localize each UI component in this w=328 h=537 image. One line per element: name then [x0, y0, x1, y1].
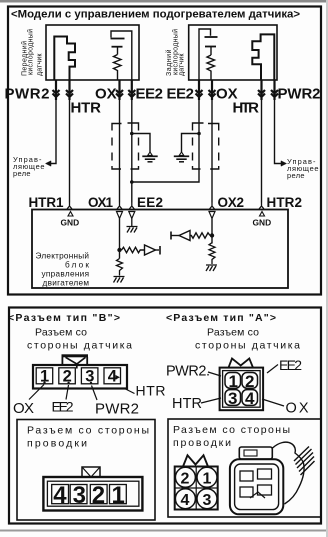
wire PWR2 front to control relay: [46, 100, 57, 166]
arrow OX rear: [209, 80, 216, 100]
arrow EE2 front: [128, 80, 135, 100]
junction EE2 front/rear: [130, 180, 134, 184]
buffer amp A1 (points right): [145, 245, 161, 255]
label OX (type B): [13, 400, 34, 417]
pin 4 (type A sensor side): [245, 389, 255, 408]
svg-text:PWR2: PWR2: [95, 401, 139, 418]
ECU input pin OX2 (open triangle): [209, 212, 215, 219]
wire EE2 rear joining front EE2: [132, 100, 199, 182]
buffer amp A2 (points left): [171, 231, 190, 241]
wire HTR front down to ECU: [69, 100, 71, 203]
arrow PWR2 rear: [271, 80, 278, 100]
leader PWR2 to pin3: [92, 386, 98, 401]
GND marker right (triangle): [253, 212, 272, 228]
svg-text:GND: GND: [253, 218, 272, 228]
zirconia sensing element (rear): lower plate: [205, 47, 216, 56]
resistor inside front sensor (OX leg): [114, 55, 122, 81]
shield (dashed) around OX front wire: [112, 124, 122, 170]
leader EE2 to pin2: [66, 385, 69, 400]
svg-text:стороны датчика: стороны датчика: [27, 340, 132, 352]
arrow HTR rear: [258, 80, 265, 100]
arrow HTR front: [66, 80, 73, 100]
pin 4 (type B sensor side): [108, 368, 118, 386]
pin 4 (type A wiring side): [181, 492, 190, 509]
resistor inside rear sensor (OX leg): [207, 55, 215, 80]
svg-text:датчик: датчик: [36, 53, 43, 76]
caption: wiring side (type B): [27, 425, 149, 450]
pin 3 (type A sensor side): [228, 389, 237, 408]
svg-text:управления: управления: [42, 270, 90, 279]
ECU box: [32, 210, 288, 289]
pin 1 (type A wiring side): [203, 471, 212, 488]
label HTR (rear): [233, 100, 260, 117]
junction OX2: [210, 233, 214, 237]
type B sensor-side connector body: [33, 365, 127, 389]
caption: wiring side (type A): [173, 424, 290, 449]
label PWR2 (rear): [278, 86, 321, 103]
zirconia sensing element (front): lower plate: [112, 47, 123, 55]
svg-text:OX: OX: [13, 400, 34, 417]
svg-text:EE2: EE2: [137, 195, 163, 210]
pin 1 (type B wiring side): [112, 482, 125, 509]
label HTR (type A) + leader: [172, 396, 221, 412]
svg-text:3: 3: [85, 368, 94, 386]
arrow OX front: [116, 80, 123, 100]
wire OX front down to ECU: [119, 100, 121, 203]
svg-text:EE2: EE2: [52, 399, 74, 415]
zirconia sensing element (rear): top plate tied to EE2: [199, 29, 218, 80]
label HTR (type B): [136, 383, 166, 399]
svg-text:2: 2: [181, 471, 190, 488]
svg-text:двигателем: двигателем: [43, 279, 90, 288]
label PWR2 (type A) + leader: [166, 364, 221, 380]
label HTR (front): [71, 100, 102, 117]
pin 4 (type B wiring side): [53, 482, 67, 509]
svg-text:GND: GND: [61, 218, 80, 228]
shield (dashed) around EE2 rear wire: [193, 123, 204, 169]
rear oxygen sensor box U2: [189, 25, 277, 80]
wire HTR rear down to ECU: [261, 100, 263, 203]
leader OX to pin1: [29, 385, 44, 400]
svg-text:HTR2: HTR2: [267, 195, 303, 210]
label: control relay (left): [13, 155, 45, 178]
svg-text:2: 2: [63, 368, 72, 386]
label HTR2: [267, 195, 303, 210]
resistor R2 (vertical, OX1 pulldown): [117, 259, 123, 276]
label EE2 (type B): [52, 399, 74, 415]
label PWR2 (front): [5, 86, 50, 103]
svg-text:HTR: HTR: [233, 100, 260, 117]
svg-text:PWR2: PWR2: [278, 86, 321, 103]
svg-text:EE2: EE2: [279, 357, 302, 373]
vertical label: rear oxygen sensor: [165, 29, 186, 76]
ECU input pin EE2 (open triangle): [129, 212, 135, 219]
pin foot HTR2: [259, 203, 264, 210]
pin 3 (type B wiring side): [73, 482, 86, 509]
svg-text:Электронный: Электронный: [36, 252, 90, 261]
wire EE2 front down to ECU: [131, 100, 133, 203]
svg-text:1: 1: [203, 471, 212, 488]
label OX (rear): [216, 86, 238, 103]
title: Models with sensor heater control: [11, 9, 300, 21]
svg-text:3: 3: [73, 482, 86, 509]
svg-text:3: 3: [228, 389, 237, 408]
zirconia sensing element (front): top plate tied to EE2: [111, 31, 132, 80]
label: control relay (right): [287, 157, 319, 180]
pin 1 (type A sensor side): [229, 372, 238, 391]
svg-text:<Разъем тип "B">: <Разъем тип "B">: [8, 312, 120, 324]
wire OX rear down to ECU: [211, 100, 213, 203]
ground symbol (rear shield): [174, 152, 189, 162]
wiring-side panel (type B): [17, 420, 155, 521]
junction EE2/shield ground: [130, 132, 134, 136]
label EE2 (rear): [167, 86, 195, 103]
type B sensor-side connector latch: [62, 354, 89, 368]
ground (hatched) below R4: [206, 265, 217, 271]
front oxygen sensor box U1: [46, 25, 139, 80]
svg-text:HTR: HTR: [136, 383, 166, 399]
svg-text:4: 4: [53, 482, 67, 509]
svg-text:EE2: EE2: [136, 86, 164, 103]
svg-text:OX1: OX1: [88, 195, 113, 210]
label OX (type A) + leader: [262, 399, 309, 417]
svg-text:Разъем со стороны: Разъем со стороны: [27, 425, 149, 437]
pin foot HTR1: [67, 203, 72, 210]
type A sensor-side connector body: [220, 368, 264, 411]
shield (dashed) around EE2 front wire: [128, 123, 139, 169]
svg-text:HTR1: HTR1: [29, 195, 64, 210]
wiring-side panel (type A): [168, 419, 321, 517]
pin 2 (type A sensor side): [245, 372, 254, 391]
svg-text:стороны датчика: стороны датчика: [195, 340, 300, 352]
pin 2 (type B wiring side): [92, 482, 105, 509]
pin 3 (type B sensor side): [85, 368, 94, 386]
type A wiring-side connector body: [175, 467, 218, 510]
resistor R1 (horizontal, OX1): [122, 247, 145, 252]
title: connector type B: [8, 312, 120, 324]
label EE2 (ECU): [137, 195, 163, 210]
svg-text:датчик: датчик: [179, 53, 186, 76]
photo illustration: harness connector (type A): [230, 447, 283, 514]
svg-text:Разъем со: Разъем со: [35, 327, 87, 339]
svg-text:EE2: EE2: [167, 86, 195, 103]
OX2 wire inside ECU: [211, 219, 213, 244]
type A wiring-side latch (M shape): [183, 455, 208, 466]
ECU input pin OX1 (open triangle): [117, 212, 123, 219]
junction OX1: [117, 248, 121, 252]
heater element (rear) between HTR and PWR2: [252, 34, 274, 80]
label EE2 (front): [136, 86, 164, 103]
vertical label: front oxygen sensor: [21, 29, 44, 76]
label HTR1: [29, 195, 64, 210]
label OX1: [88, 195, 113, 210]
resistor R3 (horizontal, OX2): [190, 233, 210, 238]
pin 2 (type B sensor side): [63, 368, 72, 386]
GND marker left (triangle): [61, 212, 80, 228]
type B wiring-side latch: [82, 467, 100, 477]
outer frame of connector pinout panel: [9, 308, 321, 524]
svg-text:PWR2: PWR2: [5, 86, 50, 103]
arrow PWR2 front: [53, 80, 60, 100]
svg-text:4: 4: [245, 389, 255, 408]
harness boot outline: [273, 442, 304, 504]
title: connector type A: [166, 312, 276, 324]
pin 1 (type B sensor side): [40, 368, 49, 386]
svg-text:реле: реле: [13, 169, 31, 178]
label: engine control unit: [36, 252, 90, 288]
arrow EE2 rear: [196, 80, 203, 100]
pin marks type B sensor side: [43, 375, 120, 384]
svg-text:PWR2.: PWR2.: [166, 364, 210, 380]
ground symbol (front shield): [142, 152, 157, 162]
EE2 internal ground (hatched): [127, 219, 138, 233]
pin foot OX2: [210, 203, 215, 210]
label PWR2 (type B): [95, 401, 139, 418]
svg-text:1: 1: [112, 482, 125, 509]
svg-text:<Разъем тип "А">: <Разъем тип "А">: [166, 312, 276, 324]
label OX2: [218, 195, 245, 210]
caption: sensor side (type A): [195, 327, 300, 352]
wire to shield ground (front): [132, 134, 150, 153]
svg-text:реле: реле: [287, 171, 305, 180]
svg-text:<Модели с управлением подогрев: <Модели с управлением подогревателем дат…: [11, 9, 300, 21]
OX1 wire inside ECU: [119, 219, 121, 259]
pin 2 (type A wiring side): [181, 471, 190, 488]
label EE2 (type A) + leader: [267, 357, 302, 373]
leader HTR to pin4: [125, 389, 135, 394]
svg-text:Разъем со стороны: Разъем со стороны: [173, 424, 290, 436]
label OX (front): [95, 86, 117, 103]
caption: sensor side (type B): [27, 327, 132, 352]
svg-text:Разъем со: Разъем со: [207, 327, 259, 339]
svg-text:кислородный: кислородный: [27, 29, 35, 75]
pin 3 (type A wiring side): [203, 492, 212, 509]
type A sensor-side connector latch (M shape): [229, 359, 254, 368]
svg-text:HTR: HTR: [71, 100, 102, 117]
type B wiring-side connector body: [43, 477, 142, 511]
svg-text:HTR: HTR: [172, 396, 202, 412]
outer frame of heater-control diagram: [8, 7, 321, 295]
svg-text:2: 2: [92, 482, 105, 509]
heater element (front) between PWR2 and HTR: [54, 37, 75, 81]
junction EE2 rear/shield ground: [197, 132, 201, 136]
svg-text:3: 3: [203, 492, 212, 509]
shield (dashed) around OX rear wire: [208, 124, 219, 170]
pin foot OX1: [117, 203, 122, 210]
wire PWR2 rear to control relay: [275, 100, 287, 166]
wire to shield ground (rear): [182, 134, 200, 153]
ground (hatched) below R2: [114, 277, 125, 283]
pin foot EE2: [129, 203, 134, 210]
wires leaving harness connector: [294, 447, 315, 476]
svg-text:4: 4: [181, 492, 190, 509]
svg-text:OX2: OX2: [218, 195, 245, 210]
resistor R4 (vertical, OX2 pulldown): [209, 243, 215, 264]
